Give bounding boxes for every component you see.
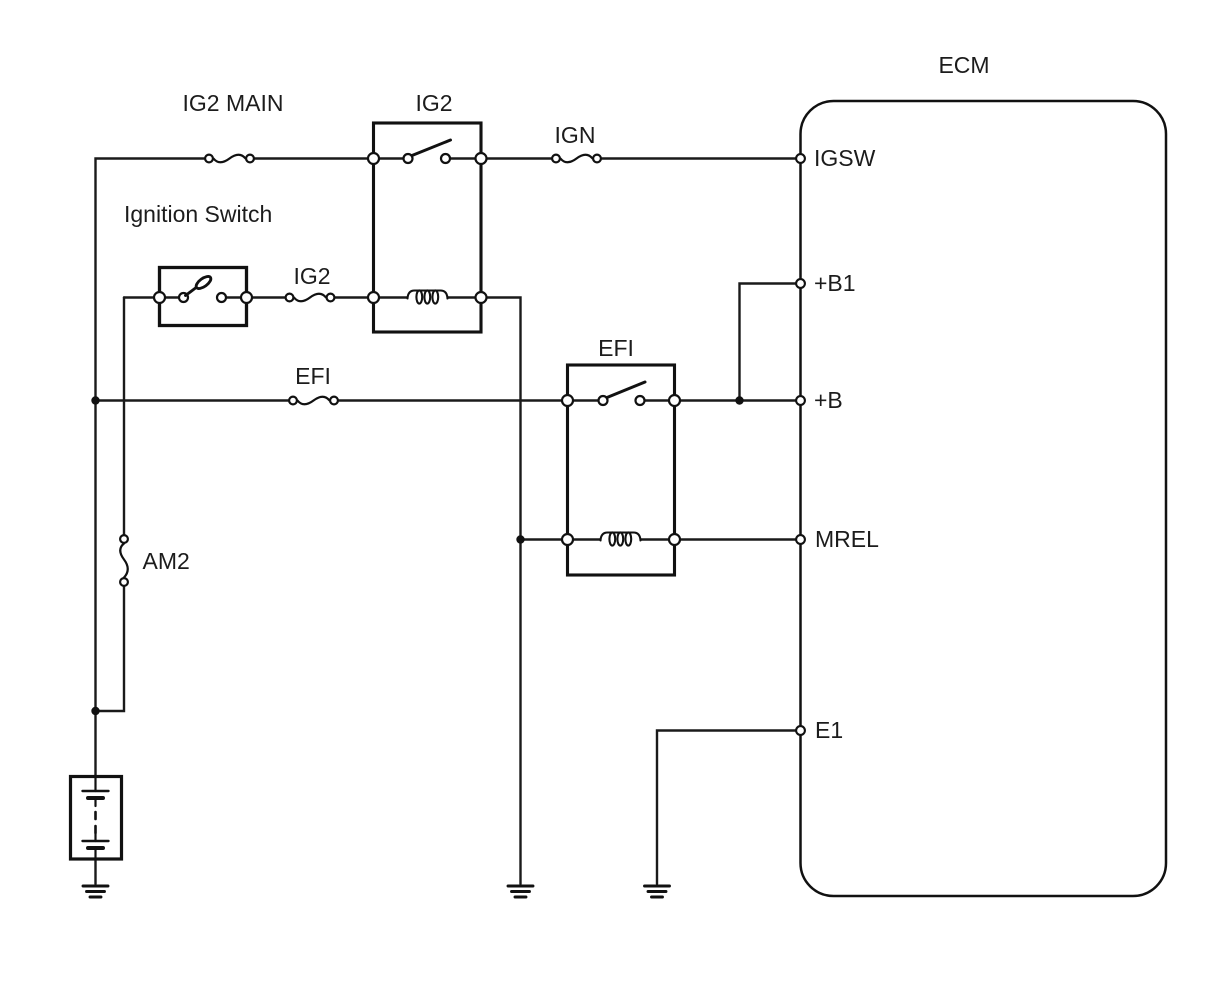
relay IG2 switch blade <box>412 140 451 156</box>
pin E1 <box>796 726 805 735</box>
relay EFI terminal pin left bottom <box>562 534 573 545</box>
fuse IGN <box>552 155 601 163</box>
svg-text:EFI: EFI <box>295 363 331 389</box>
relay EFI terminal pin right top <box>669 395 680 406</box>
junction node AM2 branch <box>91 707 99 715</box>
fuse IG2 <box>286 294 335 302</box>
relay EFI coil <box>601 532 641 545</box>
wire E1 to ground <box>657 731 800 885</box>
svg-text:IG2 MAIN: IG2 MAIN <box>183 90 284 116</box>
wire MREL: EFI coil to MREL pin <box>641 538 800 540</box>
ignition switch terminal pin right <box>241 292 252 303</box>
relay IG2 terminal pin left top <box>368 153 379 164</box>
battery BAT <box>71 777 122 860</box>
svg-text:IG2: IG2 <box>293 263 330 289</box>
relay EFI box <box>568 365 675 575</box>
wire +B rail: EFI relay contact throw to +B pin <box>640 399 800 401</box>
svg-text:+B: +B <box>814 387 843 413</box>
ground (IG2 relay coil) <box>508 886 533 897</box>
pin MREL <box>796 535 805 544</box>
wire IG2 relay coil to ground <box>448 298 521 885</box>
svg-text:E1: E1 <box>815 717 843 743</box>
relay IG2 box <box>374 123 482 332</box>
ignition switch pole terminal <box>179 293 188 302</box>
wire AM2 branch to ignition switch pole <box>124 296 184 298</box>
wire top rail: IGN fuse to IGSW pin <box>597 157 800 159</box>
relay IG2 coil <box>408 290 448 303</box>
wire +B rail: EFI fuse to EFI relay contact pole <box>334 399 603 401</box>
pin +B1 <box>796 279 805 288</box>
ignition switch throw terminal <box>217 293 226 302</box>
fuse EFI <box>289 397 338 405</box>
wire ignition switch feed (AM2 branch vertical, upper) <box>123 298 125 540</box>
svg-text:ECM: ECM <box>938 52 989 78</box>
relay IG2 terminal pin right top <box>476 153 487 164</box>
svg-text:Ignition Switch: Ignition Switch <box>124 201 272 227</box>
wire top rail: IG2 MAIN fuse to IG2 relay contact pole <box>250 157 408 159</box>
pin +B <box>796 396 805 405</box>
ignition switch key blade <box>186 274 213 295</box>
svg-text:EFI: EFI <box>598 335 634 361</box>
wire top rail: IG2 relay contact throw to IGN fuse <box>446 157 557 159</box>
ECM U1 box <box>801 101 1167 896</box>
wire MREL: coil ground junction to EFI coil <box>521 538 601 540</box>
svg-text:MREL: MREL <box>815 526 879 552</box>
ignition switch terminal pin left <box>154 292 165 303</box>
wire battery+ to top rail (left vertical) <box>96 159 210 777</box>
wire +B1 branch <box>740 284 801 401</box>
svg-text:IGSW: IGSW <box>814 145 876 171</box>
fuse IG2 MAIN <box>205 155 254 163</box>
relay EFI contact throw terminal <box>636 396 645 405</box>
relay EFI terminal pin left top <box>562 395 573 406</box>
ground (battery) <box>83 886 108 897</box>
wire ignition switch throw to IG2 fuse <box>222 296 290 298</box>
relay EFI terminal pin right bottom <box>669 534 680 545</box>
junction node MREL / coil ground <box>516 535 524 543</box>
relay IG2 terminal pin left bottom <box>368 292 379 303</box>
fuse AM2 (vertical) <box>120 535 128 586</box>
ground (E1) <box>645 886 670 897</box>
relay EFI contact pole terminal <box>599 396 608 405</box>
wire battery negative to ground <box>94 859 96 884</box>
wire +B rail: battery junction to EFI fuse <box>96 399 294 401</box>
junction node +B1 branch <box>735 396 743 404</box>
svg-text:IGN: IGN <box>555 122 596 148</box>
relay IG2 contact throw terminal <box>441 154 450 163</box>
relay IG2 contact pole terminal <box>404 154 413 163</box>
svg-text:AM2: AM2 <box>143 548 190 574</box>
ignition switch SW1 box <box>160 268 247 326</box>
relay EFI switch blade <box>607 382 645 398</box>
pin IGSW <box>796 154 805 163</box>
svg-text:IG2: IG2 <box>415 90 452 116</box>
svg-text:+B1: +B1 <box>814 270 856 296</box>
relay IG2 terminal pin right bottom <box>476 292 487 303</box>
junction node +B rail / battery feed <box>91 396 99 404</box>
wire AM2 fuse to battery junction <box>96 582 125 711</box>
wire IG2 fuse to IG2 relay coil <box>331 296 408 298</box>
